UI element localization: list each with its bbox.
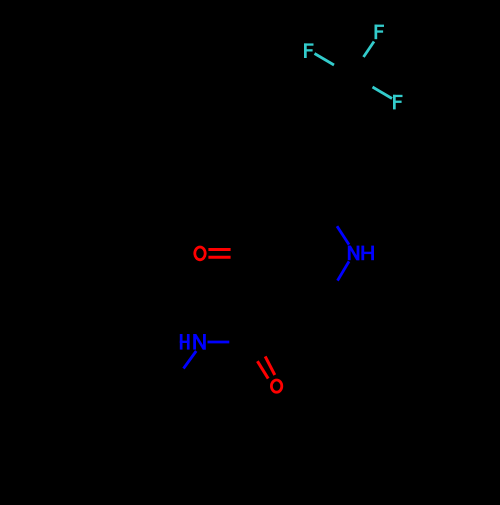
wire ring C2-N1 (blue half-bond, lower left of ring NH) bbox=[338, 261, 350, 280]
wire N-CH (blue half-bond, down-left from amide N) bbox=[184, 351, 197, 369]
atom label HN (amide NH) bbox=[180, 334, 206, 350]
atom label F2 (left fluorine) bbox=[304, 43, 314, 58]
wire C-F1 (cyan half-bond to top F) bbox=[364, 42, 375, 58]
atom label N1H (ring NH) bbox=[348, 246, 374, 261]
wire C-F3 (cyan half-bond to lower-right F) bbox=[373, 87, 393, 99]
atom label O (amide oxygen) bbox=[271, 380, 281, 392]
wire N-C(amide) (blue half-bond, horizontal) bbox=[208, 341, 230, 344]
atom label F1 (top fluorine) bbox=[375, 25, 385, 40]
atom label F3 (lower-right fluorine) bbox=[393, 95, 403, 110]
wire C(amide)=O (amide double bond, red halves) bbox=[265, 356, 275, 375]
atom label O (ketone oxygen) bbox=[195, 247, 205, 260]
wire ring C8a-N1 (blue half-bond, upper left of ring NH) bbox=[337, 226, 349, 244]
wire C4=O (ketone double bond, red halves) bbox=[208, 248, 230, 251]
wire C-F2 (cyan half-bond to left F) bbox=[315, 54, 335, 66]
